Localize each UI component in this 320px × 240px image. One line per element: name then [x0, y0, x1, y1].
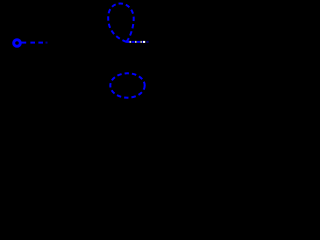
ellipse: bottom dashed ellipse [110, 73, 144, 97]
loop: dashed teardrop curve [108, 4, 134, 42]
node: small solid ring marker [14, 40, 21, 47]
wire: left dashed line [21, 42, 47, 44]
tail: alternating blue/white dashes [126, 41, 148, 43]
